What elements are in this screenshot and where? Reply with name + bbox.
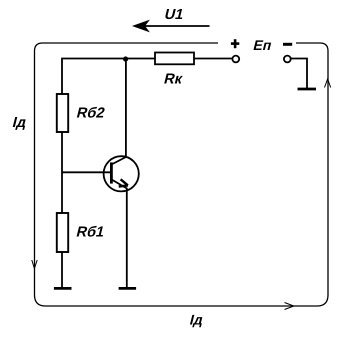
resistor Rb1 (57, 213, 68, 252)
wire Rb2 top chain / resistor Rb2 (57, 94, 68, 132)
svg-text:Iд: Iд (11, 115, 29, 131)
ground emitter (119, 287, 137, 290)
label En (252, 38, 274, 54)
wire base (62, 171, 111, 173)
wire Rk to plus terminal (194, 58, 232, 60)
label Rb2 (75, 106, 106, 122)
label Rk (162, 71, 184, 87)
label Id bottom (188, 313, 205, 329)
wire inner top rail from Rb2 top to Rk (62, 59, 155, 97)
arrow down on left rail (32, 260, 37, 269)
voltage arrow U1 (points left) (134, 21, 210, 32)
wire minus terminal to right ground (291, 59, 307, 89)
wire collector (125, 59, 127, 158)
wire Rb2 bottom to Rb1 top (61, 132, 63, 213)
svg-text:Eп: Eп (252, 38, 274, 54)
node plus terminal (232, 56, 239, 63)
wire Rb1 bottom to ground (61, 252, 63, 287)
svg-text:Rб2: Rб2 (75, 106, 106, 122)
label Id left (11, 115, 29, 131)
minus sign (283, 43, 292, 46)
arrow up on right rail (325, 79, 331, 88)
svg-text:U1: U1 (163, 7, 185, 23)
ground left (54, 287, 72, 290)
wire emitter to ground (126, 188, 128, 287)
node minus terminal (284, 56, 291, 63)
resistor Rk (155, 53, 194, 65)
transistor VT1 (104, 156, 139, 191)
svg-text:Rк: Rк (162, 71, 184, 87)
label Rb1 (75, 224, 106, 240)
wire outer loop (current Id path, rounded rect with gap for En) (35, 43, 329, 306)
arrow right on bottom rail (285, 303, 294, 310)
ground right (298, 88, 317, 91)
svg-text:Rб1: Rб1 (75, 224, 106, 240)
label U1 (163, 7, 185, 23)
junction dot collector node (123, 56, 128, 61)
svg-text:Iд: Iд (188, 313, 205, 329)
plus sign (231, 39, 239, 48)
